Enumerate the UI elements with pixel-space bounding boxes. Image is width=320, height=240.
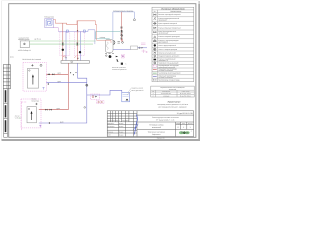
- svg-text:класс зоны: класс зоны: [182, 91, 190, 93]
- svg-text:повышения давления: повышения давления: [112, 69, 127, 71]
- svg-text:Тёплый пол: Тёплый пол: [44, 16, 54, 19]
- svg-text:Примечание: Примечание: [168, 101, 182, 104]
- svg-text:котельной: котельной: [152, 126, 161, 129]
- svg-text:Therm: Therm: [181, 132, 190, 135]
- svg-text:топочная: топочная: [163, 96, 170, 98]
- svg-text:25,6 м²: 25,6 м²: [15, 116, 20, 118]
- svg-text:Тепловая схема: Тепловая схема: [149, 123, 164, 126]
- svg-text:АОГВ Сибирь 11: АОГВ Сибирь 11: [18, 49, 31, 52]
- svg-text:15-дек/2019-01-ОВ: 15-дек/2019-01-ОВ: [177, 112, 194, 115]
- svg-text:Насосная установка: Насосная установка: [112, 67, 126, 69]
- svg-text:Указатель уровня: Указатель уровня: [131, 88, 143, 90]
- svg-text:Листов: Листов: [188, 123, 193, 125]
- svg-text:Лист: Лист: [182, 123, 185, 125]
- svg-text:1: 1: [183, 126, 184, 129]
- svg-text:1: 1: [190, 126, 191, 129]
- svg-text:Стадия: Стадия: [176, 123, 181, 125]
- svg-text:ВК-01: ВК-01: [10, 56, 14, 58]
- svg-text:системы отопления: системы отопления: [158, 70, 173, 72]
- svg-text:помещение: помещение: [162, 91, 170, 93]
